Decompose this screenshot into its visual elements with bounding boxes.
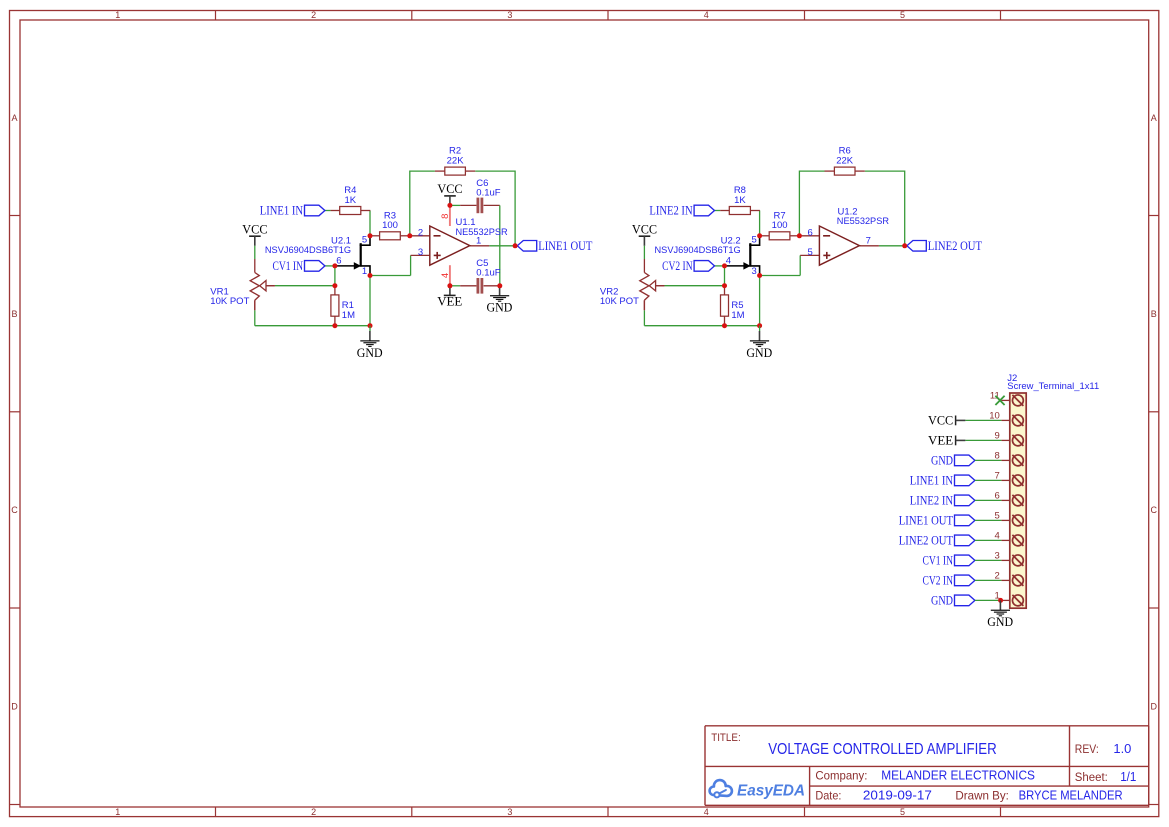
svg-text:3: 3 [418,247,423,258]
svg-text:Sheet:: Sheet: [1075,772,1108,784]
svg-text:1M: 1M [342,310,355,321]
svg-text:GND: GND [746,345,772,360]
svg-text:GND: GND [931,453,953,467]
svg-text:NE5532PSR: NE5532PSR [837,216,889,227]
svg-text:4: 4 [704,10,709,20]
svg-text:1: 1 [362,266,367,277]
svg-text:5: 5 [808,247,813,258]
svg-text:3: 3 [752,266,757,277]
svg-text:10K POT: 10K POT [600,296,639,307]
svg-text:100: 100 [772,220,788,231]
svg-text:Date:: Date: [815,789,841,803]
svg-text:GND: GND [357,345,383,360]
svg-text:0.1uF: 0.1uF [476,268,500,279]
svg-text:CV1 IN: CV1 IN [923,553,954,567]
svg-text:C: C [1150,505,1157,515]
svg-text:1: 1 [115,807,120,817]
svg-text:B: B [11,309,17,319]
svg-text:1K: 1K [344,195,356,206]
svg-text:Company:: Company: [815,768,867,782]
svg-text:10K POT: 10K POT [210,296,249,307]
svg-text:3: 3 [507,10,512,20]
svg-text:VCC: VCC [437,181,462,196]
svg-text:VCC: VCC [928,413,953,428]
svg-text:CV2 IN: CV2 IN [662,259,693,273]
svg-text:LINE1 IN: LINE1 IN [260,204,303,218]
svg-text:1M: 1M [731,310,744,321]
svg-text:LINE1 IN: LINE1 IN [910,473,953,487]
svg-text:LINE2 OUT: LINE2 OUT [928,239,983,253]
svg-text:BRYCE MELANDER: BRYCE MELANDER [1019,789,1123,803]
svg-text:A: A [11,113,17,123]
svg-text:LINE2 IN: LINE2 IN [649,204,692,218]
svg-text:100: 100 [382,220,398,231]
svg-text:4: 4 [704,807,709,817]
svg-text:D: D [1150,702,1157,712]
svg-text:D: D [11,702,18,712]
svg-text:1: 1 [115,10,120,20]
svg-text:REV:: REV: [1075,744,1099,756]
svg-text:Screw_Terminal_1x11: Screw_Terminal_1x11 [1007,381,1099,392]
svg-text:1/1: 1/1 [1120,770,1136,784]
svg-text:GND: GND [987,614,1013,629]
svg-text:2: 2 [418,228,423,239]
svg-text:VOLTAGE CONTROLLED AMPLIFIER: VOLTAGE CONTROLLED AMPLIFIER [768,741,997,758]
svg-text:VCC: VCC [242,222,267,237]
svg-text:C: C [11,505,18,515]
svg-text:MELANDER ELECTRONICS: MELANDER ELECTRONICS [881,768,1035,782]
svg-text:5: 5 [900,807,905,817]
svg-text:22K: 22K [447,156,465,167]
svg-text:7: 7 [866,235,871,246]
svg-text:A: A [1151,113,1157,123]
svg-text:Drawn By:: Drawn By: [955,789,1009,803]
svg-text:VEE: VEE [928,433,953,448]
svg-text:8: 8 [440,214,451,219]
svg-text:LINE1 OUT: LINE1 OUT [538,239,593,253]
svg-text:TITLE:: TITLE: [711,732,741,744]
svg-text:22K: 22K [836,156,854,167]
svg-text:LINE1 OUT: LINE1 OUT [899,513,954,527]
svg-text:5: 5 [362,234,367,245]
svg-text:4: 4 [440,273,451,278]
svg-text:GND: GND [487,300,513,315]
svg-text:3: 3 [507,807,512,817]
svg-text:1K: 1K [734,195,746,206]
svg-text:LINE2 IN: LINE2 IN [910,493,953,507]
svg-text:NE5532PSR: NE5532PSR [456,227,508,238]
svg-text:EasyEDA: EasyEDA [737,783,805,800]
svg-text:1.0: 1.0 [1113,742,1131,756]
svg-text:LINE2 OUT: LINE2 OUT [899,533,954,547]
svg-text:B: B [1151,309,1157,319]
svg-text:2019-09-17: 2019-09-17 [863,789,932,803]
svg-text:VEE: VEE [437,294,462,309]
svg-text:VCC: VCC [632,222,657,237]
svg-text:5: 5 [752,234,757,245]
svg-text:GND: GND [931,593,953,607]
svg-text:2: 2 [311,807,316,817]
svg-text:5: 5 [900,10,905,20]
svg-text:2: 2 [311,10,316,20]
svg-text:0.1uF: 0.1uF [476,187,500,198]
svg-text:CV1 IN: CV1 IN [273,259,304,273]
svg-text:6: 6 [808,228,813,239]
svg-text:CV2 IN: CV2 IN [923,573,954,587]
